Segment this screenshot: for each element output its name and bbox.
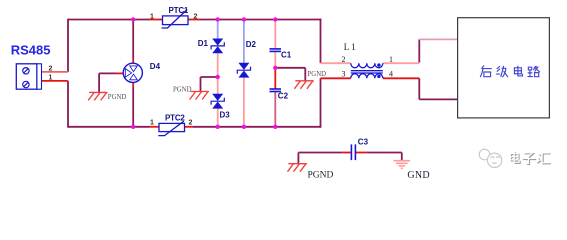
svg-text:1: 1 (389, 55, 393, 64)
svg-text:4: 4 (389, 69, 393, 78)
svg-text:GND: GND (407, 170, 430, 181)
svg-text:2: 2 (342, 55, 346, 64)
svg-text:RS485: RS485 (11, 43, 51, 58)
svg-text:1: 1 (150, 14, 154, 21)
svg-text:D4: D4 (150, 62, 161, 71)
svg-text:C2: C2 (278, 92, 289, 101)
svg-text:PGND: PGND (173, 87, 192, 94)
svg-text:1: 1 (49, 74, 53, 81)
svg-text:3: 3 (342, 69, 346, 78)
svg-text:2: 2 (189, 120, 193, 127)
svg-text:D1: D1 (198, 39, 209, 48)
svg-text:2: 2 (49, 65, 53, 72)
svg-text:2: 2 (194, 14, 198, 21)
svg-text:D2: D2 (246, 40, 257, 49)
svg-text:C1: C1 (281, 50, 292, 59)
svg-text:D3: D3 (220, 111, 231, 120)
svg-text:PTC1: PTC1 (169, 6, 189, 15)
svg-text:L1: L1 (344, 42, 358, 52)
svg-text:PGND: PGND (308, 71, 327, 78)
svg-text:PTC2: PTC2 (165, 114, 185, 123)
svg-text:PGND: PGND (108, 94, 127, 101)
svg-text:C3: C3 (358, 138, 369, 147)
svg-text:1: 1 (150, 120, 154, 127)
svg-text:PGND: PGND (308, 171, 334, 181)
